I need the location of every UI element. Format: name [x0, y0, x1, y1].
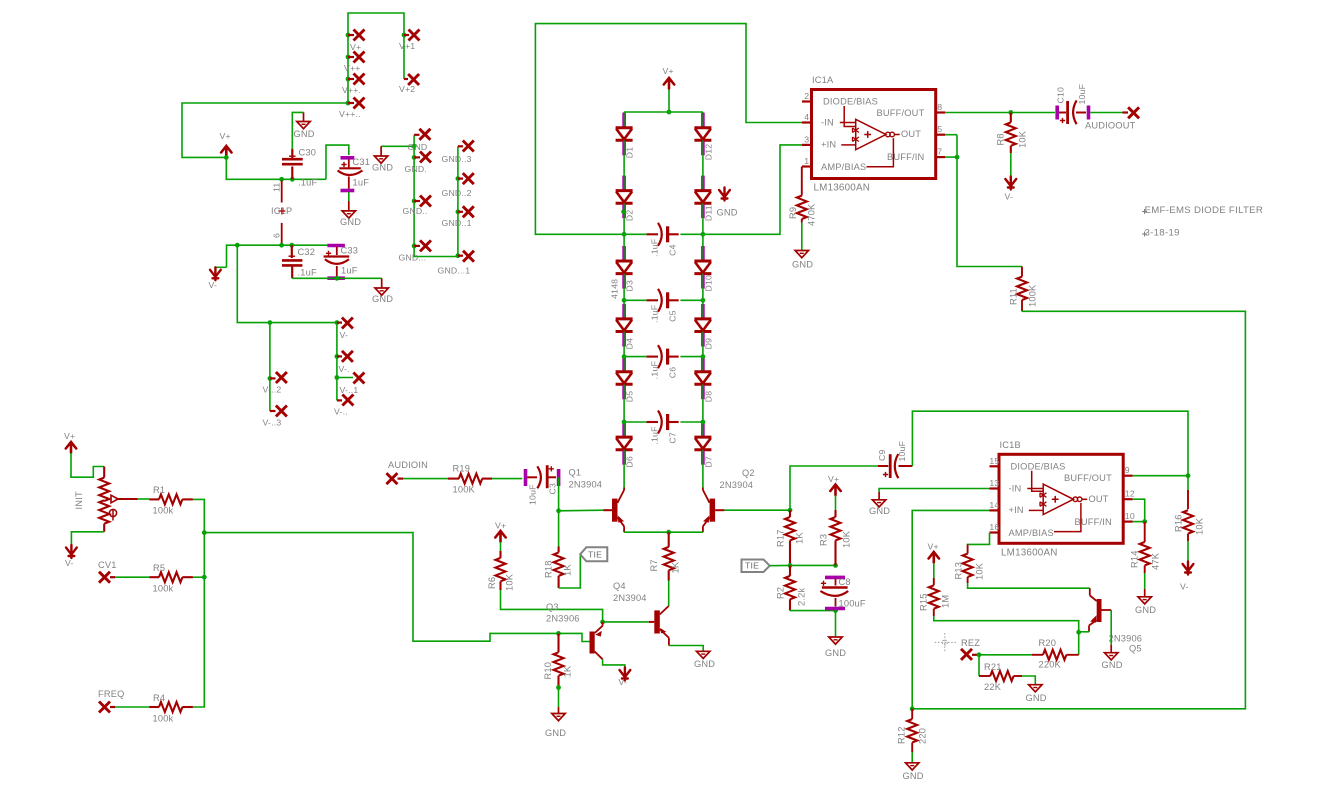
node V-..2 pin	[268, 320, 273, 325]
svg-text:1M: 1M	[941, 595, 951, 608]
svg-text:V+: V+	[663, 66, 674, 76]
svg-text:.1uF: .1uF	[650, 239, 660, 257]
wire R6 to Q3/Q4 node	[501, 590, 603, 622]
ground GND R2/C8	[829, 637, 842, 644]
svg-text:CV1: CV1	[98, 560, 117, 570]
wire GND bus left column	[381, 145, 414, 147]
svg-text:.1uF: .1uF	[298, 178, 317, 188]
svg-text:7: 7	[937, 147, 942, 157]
node C30 junction	[290, 177, 295, 182]
node R12 junction	[910, 706, 915, 711]
diode D5 1N4148	[622, 357, 626, 371]
svg-text:4148: 4148	[610, 279, 620, 299]
capacitor C9 10uF	[878, 465, 888, 467]
node C4 bus junctions	[622, 232, 627, 237]
svg-text:GND: GND	[903, 771, 924, 781]
node D2 cathode junction	[621, 209, 626, 214]
svg-text:V-..2: V-..2	[263, 385, 282, 395]
node C5 bus junctions	[622, 298, 627, 303]
svg-text:D1: D1	[625, 147, 635, 159]
svg-text:GND..3: GND..3	[442, 154, 472, 164]
svg-text:C5: C5	[668, 310, 678, 322]
op-amp IC1A internal symbol	[844, 106, 856, 127]
svg-text:D8: D8	[704, 391, 714, 403]
svg-text:.1uF: .1uF	[298, 268, 317, 278]
capacitor C6 .1uF	[624, 356, 647, 358]
wire FREQ to R4	[115, 706, 149, 708]
power V- symbol INIT	[66, 545, 77, 558]
svg-text:V-.: V-.	[339, 364, 350, 374]
wire R8 to V-	[1010, 153, 1012, 177]
node pin 10	[1123, 520, 1133, 522]
svg-text:1uF: 1uF	[341, 266, 358, 276]
svg-text:D12: D12	[704, 144, 714, 161]
node pin 2	[802, 100, 812, 102]
svg-text:2N3906: 2N3906	[546, 614, 580, 624]
wire V- bus	[237, 245, 337, 400]
svg-text:10K: 10K	[505, 573, 515, 591]
svg-text:GND: GND	[1026, 693, 1047, 703]
svg-text:BUFF/IN: BUFF/IN	[1075, 517, 1112, 527]
node pin 16	[990, 531, 1000, 533]
wire pin16 to R13	[968, 533, 990, 546]
ground GND R12	[906, 763, 919, 770]
svg-text:R4: R4	[153, 693, 165, 703]
resistor R9 470K	[801, 167, 803, 196]
resistor R18 1K	[558, 547, 560, 553]
svg-text:C32: C32	[298, 247, 316, 257]
capacitor C7 .1uF	[624, 421, 647, 423]
svg-text:C10: C10	[1056, 87, 1066, 104]
node GND..3 pin	[458, 145, 463, 147]
wire AUDIOIN to R19	[403, 478, 448, 480]
node pin 14	[990, 509, 1000, 511]
svg-text:1K: 1K	[795, 532, 805, 544]
wire V+ to R15	[933, 563, 935, 585]
transistor Q5 2N3906	[1089, 588, 1091, 595]
node pin 13	[990, 487, 1000, 489]
svg-text:D6: D6	[625, 456, 635, 468]
svg-text:V+: V+	[828, 474, 839, 484]
node GND..2 pin	[456, 176, 461, 181]
svg-text:100K: 100K	[1028, 284, 1038, 307]
wire Q3 collector to V-	[603, 659, 625, 668]
wire R7 to Q4 collector	[668, 581, 670, 607]
label title	[1142, 209, 1147, 214]
node Q1 base junction	[556, 508, 561, 513]
node GND pin	[414, 134, 419, 136]
wire C10 to AUDIOOUT	[1090, 112, 1122, 114]
svg-text:220K: 220K	[1039, 660, 1062, 670]
wire R14 to GND	[1144, 573, 1146, 589]
wire R1 to summing node	[193, 499, 204, 577]
capacitor C10 10uF	[1055, 106, 1059, 120]
svg-text:100k: 100k	[153, 584, 174, 594]
wire V+ bus top	[348, 13, 404, 103]
node R5 junction	[202, 575, 207, 580]
svg-text:22K: 22K	[984, 682, 1002, 692]
svg-text:GND: GND	[545, 728, 566, 738]
svg-text:LM13600AN: LM13600AN	[814, 183, 871, 194]
svg-text:V++: V++	[344, 63, 361, 73]
node pin6 wire junctions	[235, 243, 240, 248]
svg-text:100uF: 100uF	[839, 599, 866, 609]
node Q5 emitter junction	[1076, 630, 1081, 635]
wire R9 to GND	[801, 223, 803, 251]
diode D8 1N4148	[701, 357, 705, 371]
svg-text:12: 12	[1125, 489, 1135, 499]
svg-text:GND: GND	[408, 142, 428, 152]
svg-text:R9: R9	[788, 207, 798, 219]
label TIE flag 2	[742, 560, 770, 573]
op-amp IC1B LM13600AN	[999, 454, 1123, 543]
svg-text:10uF: 10uF	[528, 484, 538, 505]
svg-text:-IN: -IN	[821, 117, 834, 127]
svg-text:47K: 47K	[1151, 552, 1161, 570]
svg-text:4: 4	[804, 112, 809, 122]
svg-text:V-: V-	[619, 677, 628, 687]
svg-text:V+: V+	[64, 431, 75, 441]
node Q2 base / R17 junction	[788, 508, 793, 513]
svg-text:16: 16	[989, 522, 999, 532]
resistor R5 100k	[149, 576, 159, 578]
svg-text:Q2: Q2	[742, 468, 755, 478]
svg-text:2N3904: 2N3904	[613, 593, 647, 603]
svg-text:C33: C33	[341, 246, 359, 256]
label REZ crosshair	[935, 633, 956, 653]
svg-text:V-: V-	[65, 558, 74, 568]
svg-text:8: 8	[937, 102, 942, 112]
resistor R17 1K	[789, 510, 791, 517]
svg-text:.1uF: .1uF	[650, 361, 660, 379]
node V-.. pin	[337, 399, 342, 401]
resistor R1 100k	[149, 498, 159, 500]
ground GND C31	[342, 211, 355, 218]
diode D6 1N4148	[622, 422, 626, 436]
svg-text:AUDIOOUT: AUDIOOUT	[1085, 121, 1136, 131]
svg-text:R8: R8	[996, 133, 1006, 145]
wire V+ to pin11 row	[226, 157, 326, 179]
resistor R11 100K	[1021, 267, 1023, 277]
node V++ pin	[346, 55, 351, 60]
wire TIE2 to nodes	[770, 564, 790, 566]
wire base node to R18	[558, 511, 560, 547]
wire R21 to GND	[1022, 676, 1035, 685]
svg-text:R2: R2	[776, 587, 786, 599]
svg-text:AUDIOIN: AUDIOIN	[388, 460, 428, 470]
transistor Q1 2N3904	[603, 509, 612, 511]
svg-text:3: 3	[804, 134, 809, 144]
svg-text:D5: D5	[625, 391, 635, 403]
svg-text:C31: C31	[353, 157, 371, 167]
label TIE flag 1	[580, 547, 607, 561]
svg-text:REZ: REZ	[961, 638, 980, 648]
svg-text:V+: V+	[928, 542, 939, 552]
svg-text:GND..2: GND..2	[442, 188, 472, 198]
potentiometer INIT 100k	[103, 467, 105, 478]
node pin7 junction	[955, 155, 960, 160]
svg-text:V+1: V+1	[399, 41, 415, 51]
wire pin6 row	[227, 245, 337, 267]
node pin 9	[1123, 475, 1133, 477]
svg-text:GND: GND	[694, 659, 715, 669]
svg-text:10: 10	[1125, 511, 1135, 521]
svg-text:OUT: OUT	[901, 129, 921, 139]
transistor Q4 2N3904	[649, 621, 655, 623]
svg-text:V+2: V+2	[399, 84, 415, 94]
svg-text:2: 2	[804, 91, 809, 101]
resistor R8 10K	[1010, 113, 1012, 123]
ground GND R9	[795, 251, 808, 258]
node pin11 junction	[279, 177, 284, 182]
svg-text:BUFF/IN: BUFF/IN	[887, 152, 924, 162]
svg-text:D2: D2	[625, 210, 635, 222]
svg-text:Q5: Q5	[1129, 644, 1142, 654]
wire node to Q4 base	[603, 621, 649, 623]
svg-text:V++.: V++.	[342, 85, 361, 95]
svg-text:INIT: INIT	[74, 491, 84, 509]
svg-text:9: 9	[1125, 465, 1130, 475]
svg-text:LM13600AN: LM13600AN	[1001, 547, 1058, 558]
ground GND R10	[552, 714, 565, 721]
capacitor C33 1uF	[327, 244, 345, 248]
wire V+ to R3	[835, 496, 837, 518]
svg-text:BUFF/OUT: BUFF/OUT	[877, 108, 925, 118]
ground GND C30	[297, 122, 310, 129]
node pin 1	[802, 165, 812, 167]
svg-text:GND..: GND..	[403, 206, 428, 216]
wire R4 to node	[193, 577, 204, 707]
svg-text:100K: 100K	[453, 485, 476, 495]
svg-text:D3: D3	[625, 280, 635, 292]
wire INIT wiper to R1	[138, 498, 150, 500]
node V-..3 pin	[270, 410, 276, 412]
svg-text:Q1: Q1	[569, 468, 582, 478]
node ladder top junction	[667, 110, 672, 115]
ground GND C32/C33	[375, 288, 388, 295]
svg-text:1K: 1K	[563, 665, 573, 677]
resistor R16 10K	[1187, 476, 1189, 490]
wire V+ net	[182, 103, 348, 157]
resistor R20 220K	[1032, 654, 1043, 656]
svg-text:Q3: Q3	[546, 602, 559, 612]
svg-text:R14: R14	[1130, 550, 1140, 568]
node Q3 emitter junction	[600, 620, 605, 625]
svg-text:14: 14	[989, 500, 999, 510]
node GND..1 pin	[456, 209, 461, 214]
node pin 5	[936, 134, 946, 136]
svg-text:V+: V+	[220, 131, 231, 141]
svg-text:10uF: 10uF	[1077, 84, 1087, 105]
svg-text:AMP/BIAS: AMP/BIAS	[1009, 528, 1054, 538]
node C33 bottom junction	[334, 276, 339, 281]
node R17/R2 junction	[788, 563, 793, 568]
node pin 8	[936, 111, 946, 113]
diode D2 1N4148	[622, 176, 626, 190]
svg-text:GND...1: GND...1	[438, 266, 471, 276]
capacitor C3 10uF	[524, 469, 528, 486]
resistor R19 100K	[448, 478, 459, 480]
wire R10 to GND	[558, 688, 560, 708]
svg-text:GND: GND	[825, 648, 846, 658]
node C8 bottom junction	[833, 608, 838, 613]
svg-text:C3: C3	[548, 483, 558, 495]
svg-text:DIODE/BIAS: DIODE/BIAS	[1011, 461, 1066, 471]
wire ladder top bus	[668, 90, 670, 113]
resistor R15 1M	[933, 578, 935, 585]
node C6 bus junctions	[622, 354, 627, 359]
svg-text:100k: 100k	[153, 506, 174, 516]
svg-text:TIE: TIE	[588, 550, 602, 560]
wire R17 node up to C9 row	[790, 466, 878, 510]
diode D12 1N4148	[701, 113, 705, 127]
svg-text:R7: R7	[649, 559, 659, 571]
svg-text:V-..1: V-..1	[340, 385, 359, 395]
svg-text:V-..: V-..	[334, 407, 348, 417]
svg-text:R12: R12	[897, 726, 907, 744]
wire pin14 to R12 node	[912, 510, 989, 708]
svg-text:5: 5	[937, 124, 942, 134]
svg-text:R11: R11	[1009, 288, 1019, 305]
svg-text:V-: V-	[1005, 192, 1014, 202]
svg-text:1K: 1K	[671, 561, 681, 573]
op-amp IC1A LM13600AN	[812, 90, 936, 179]
svg-text:15: 15	[989, 456, 999, 466]
ground GND R21	[1029, 685, 1042, 692]
ground GND flag	[374, 156, 387, 163]
svg-text:GND.: GND.	[405, 164, 428, 174]
svg-text:100k: 100k	[153, 714, 174, 724]
node R3/C8 junction	[833, 563, 838, 568]
op-amp IC1B internal symbol	[1032, 471, 1044, 492]
node V-. pin	[335, 354, 340, 359]
power V- symbol R8	[1005, 177, 1016, 190]
svg-text:R13: R13	[954, 562, 964, 580]
svg-text:IC1B: IC1B	[1000, 440, 1021, 450]
wire GND bus vertical	[414, 135, 458, 256]
node V+ pin	[346, 33, 351, 38]
wire -IN feedback loop	[535, 24, 802, 235]
node emitter junction	[666, 530, 671, 535]
svg-text:+IN: +IN	[1009, 505, 1024, 515]
ground GND Q5	[1105, 653, 1118, 660]
svg-text:2N3904: 2N3904	[720, 480, 754, 490]
wire ladder column	[623, 111, 625, 114]
svg-text:V-..3: V-..3	[263, 418, 282, 428]
label date	[1142, 232, 1147, 237]
node R10 bottom junction	[556, 685, 561, 690]
wire CV1 to R5	[115, 576, 149, 578]
svg-text:V-: V-	[209, 280, 218, 290]
resistor R3 10K	[834, 510, 836, 517]
svg-text:GND: GND	[792, 260, 813, 270]
wire Q2 base to R17 node	[724, 509, 790, 511]
ground GND Q4	[697, 651, 710, 658]
node pin 15	[990, 465, 1000, 467]
svg-text:R15: R15	[919, 593, 929, 611]
node pin9 junction	[1186, 473, 1191, 478]
wire REZ node to R21	[978, 655, 980, 676]
node pin10 junction	[1142, 519, 1147, 524]
resistor R4 100k	[149, 706, 159, 708]
svg-text:FREQ: FREQ	[98, 689, 125, 699]
capacitor C5 .1uF	[624, 299, 647, 301]
wire R5 to node	[193, 576, 204, 578]
svg-text:R3: R3	[819, 534, 829, 546]
svg-text:R20: R20	[1039, 638, 1057, 648]
wire R18 to TIE	[559, 556, 581, 589]
resistor R7 1K	[668, 532, 670, 547]
wire C8 bottom to GND	[835, 611, 837, 637]
svg-text:R5: R5	[153, 563, 165, 573]
svg-text:DIODE/BIAS: DIODE/BIAS	[823, 97, 878, 107]
wire INIT bottom to V-	[71, 532, 104, 546]
node R10 junction	[556, 631, 561, 636]
wire emitter bus	[624, 531, 703, 533]
svg-text:1K: 1K	[563, 564, 573, 576]
svg-text:C9: C9	[877, 449, 887, 461]
svg-text:AMP/BIAS: AMP/BIAS	[821, 162, 866, 172]
svg-text:D4: D4	[625, 338, 635, 350]
node GND.. pin	[412, 199, 417, 204]
svg-text:GND: GND	[717, 208, 738, 218]
wire C32/C33 bottom to GND	[292, 277, 382, 279]
node V++. pin	[346, 77, 351, 82]
diode D7 1N4148	[701, 422, 705, 436]
ground GND arrow ladder	[719, 188, 730, 201]
node V+2 pin	[404, 78, 408, 80]
ground GND pin13	[872, 500, 885, 507]
svg-text:BUFF/OUT: BUFF/OUT	[1064, 473, 1112, 483]
svg-text:GND..1: GND..1	[442, 218, 472, 228]
node REZ junction	[977, 652, 982, 657]
capacitor C32 .1uF	[291, 245, 293, 258]
node pin 7	[936, 156, 946, 158]
node AUDIOOUT pin	[1128, 107, 1139, 118]
svg-text:10K: 10K	[1195, 517, 1205, 535]
svg-text:6: 6	[272, 233, 282, 238]
capacitor C4 .1uF	[624, 233, 647, 235]
capacitor C8 100uF	[825, 576, 845, 580]
diode D10 1N4148	[701, 246, 705, 260]
svg-text:13: 13	[989, 478, 999, 488]
svg-text:R18: R18	[544, 560, 554, 578]
svg-text:D7: D7	[704, 456, 714, 468]
wire C3 to Q1 base	[558, 477, 560, 511]
node GND...1 pin	[456, 253, 461, 258]
svg-text:2N3906: 2N3906	[1109, 634, 1143, 644]
node R1/R5 junction	[202, 530, 207, 535]
svg-text:C8: C8	[839, 577, 851, 587]
wire C9 to pin9 net	[912, 411, 1188, 476]
wire REZ node to R20	[979, 654, 1032, 656]
node GND... pin	[412, 244, 417, 249]
svg-text:R16: R16	[1174, 514, 1184, 532]
wire summing node to Q3 base net	[204, 533, 558, 642]
svg-text:10K: 10K	[975, 562, 985, 580]
svg-text:R1: R1	[153, 485, 165, 495]
wire V+ to INIT pot	[71, 453, 104, 477]
diode D9 1N4148	[701, 304, 705, 318]
node R8 junction	[1008, 110, 1013, 115]
svg-text:IC1A: IC1A	[812, 75, 834, 85]
node V+1 pin	[402, 33, 407, 38]
node V++.. pin	[346, 101, 351, 106]
svg-text:V++..: V++..	[339, 109, 361, 119]
svg-text:470K: 470K	[807, 203, 817, 226]
wire pin9 stub	[1133, 475, 1188, 477]
diode D1 1N4148	[622, 113, 626, 127]
